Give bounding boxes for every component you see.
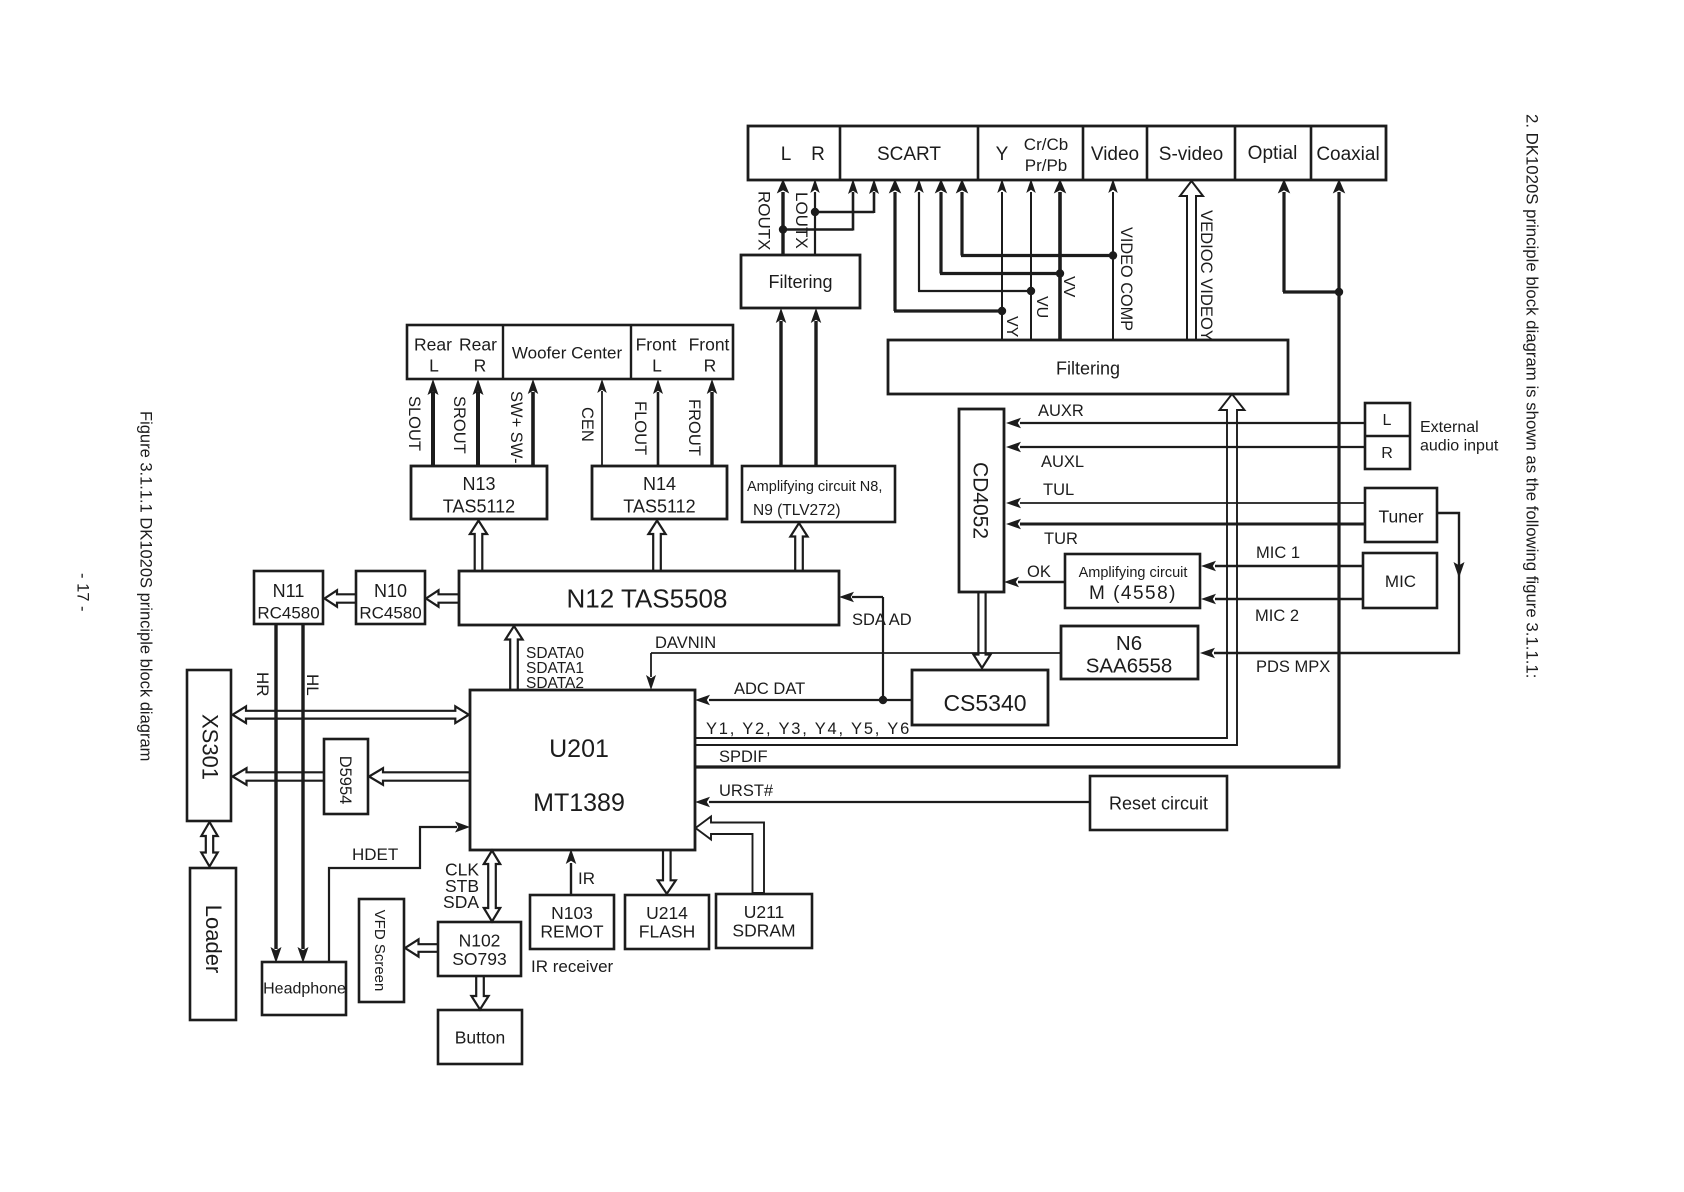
svg-text:CEN: CEN (578, 407, 596, 442)
svg-text:audio input: audio input (1420, 438, 1499, 455)
wire SCART pin 3 video Y (893, 192, 896, 311)
wire HR from N11 to Headphone (274, 624, 277, 949)
svg-text:Y: Y (996, 144, 1009, 165)
svg-text:ROUTX: ROUTX (755, 191, 774, 251)
open arrow U201 to D5954 (369, 768, 469, 785)
svg-text:VY: VY (1003, 316, 1020, 338)
svg-text:XS301: XS301 (198, 714, 223, 780)
op-amp N10 RC4580 (356, 571, 425, 624)
open double arrow XS301 to U201 (233, 706, 469, 723)
svg-text:SW+ SW-: SW+ SW- (507, 391, 525, 464)
svg-text:SDRAM: SDRAM (732, 921, 795, 941)
svg-text:U201: U201 (549, 735, 609, 763)
connector divider Optial/Coaxial (1310, 126, 1313, 180)
connector divider S-video/Optial (1234, 126, 1237, 180)
wire HL from N11 to Headphone (301, 624, 304, 949)
memory U211 SDRAM (716, 894, 812, 948)
decoder U201 MT1389 (470, 690, 695, 850)
Button box (438, 1010, 522, 1064)
svg-text:SROUT: SROUT (450, 396, 468, 454)
node VV junction (1056, 269, 1064, 277)
wire AUXR from external audio to CD4052 (1020, 422, 1365, 424)
open arrow U211 to U201 bent (696, 817, 765, 894)
svg-text:Amplifying circuit N8,: Amplifying circuit N8, (747, 479, 882, 495)
svg-text:TAS5112: TAS5112 (443, 497, 515, 517)
connector XS301 (187, 670, 231, 821)
svg-text:HDET: HDET (352, 845, 398, 864)
svg-text:URST#: URST# (719, 782, 774, 800)
external audio input L R box (1365, 403, 1410, 469)
svg-text:N10: N10 (374, 581, 407, 601)
open double arrow CLK STB SDA between U201 and N102 (484, 851, 500, 922)
svg-text:Figure 3.1.1.1 DK1020S princip: Figure 3.1.1.1 DK1020S principle block d… (137, 411, 155, 761)
svg-text:MT1389: MT1389 (533, 789, 625, 817)
open arrow SDATA0-2 from U201 to N12 (505, 626, 522, 689)
svg-text:N13: N13 (462, 474, 495, 494)
svg-text:Y1, Y2, Y3, Y4, Y5, Y6: Y1, Y2, Y3, Y4, Y5, Y6 (706, 720, 911, 738)
svg-text:AUXL: AUXL (1041, 453, 1084, 471)
svg-text:R: R (1381, 445, 1393, 462)
node SPDIF junction at Coaxial line (1335, 288, 1343, 296)
connector divider Video/S-video (1146, 126, 1149, 180)
wire ADC DAT from CS5340 to U201 (709, 699, 912, 701)
svg-text:VIDEO COMP: VIDEO COMP (1117, 227, 1135, 331)
wire VU from video Filtering to connector Cr/Cb (1030, 192, 1032, 340)
wire SLOUT from N13 to Rear L (431, 392, 435, 466)
wire VY from video Filtering to connector Y (1001, 192, 1003, 340)
svg-text:N14: N14 (643, 474, 676, 494)
amplifier M 4558 (1065, 554, 1200, 608)
wire amplifier N8/N9 output 2 to audio Filtering (814, 321, 817, 466)
svg-text:CS5340: CS5340 (943, 690, 1026, 716)
svg-text:IR: IR (578, 869, 595, 888)
svg-text:VEDIOC VIDEOY: VEDIOC VIDEOY (1197, 210, 1216, 341)
svg-text:U211: U211 (744, 902, 785, 922)
svg-text:FLASH: FLASH (639, 922, 695, 942)
speaker output row outline (407, 325, 733, 379)
svg-text:Pr/Pb: Pr/Pb (1025, 156, 1068, 175)
svg-text:SDA AD: SDA AD (852, 611, 912, 629)
audio switch N6 SAA6558 (1061, 626, 1198, 679)
svg-text:U214: U214 (646, 903, 688, 923)
wire MIC 2 from MIC to amplifier M (1215, 598, 1363, 601)
svg-text:Reset circuit: Reset circuit (1109, 794, 1208, 814)
svg-text:Rear: Rear (459, 335, 497, 355)
amplifier N8 N9 TLV272 (742, 466, 895, 522)
wire FLOUT from N14 to Front L (657, 392, 660, 466)
controller N102 SO793 (438, 922, 521, 976)
node VY junction (998, 307, 1006, 315)
svg-text:RC4580: RC4580 (257, 604, 319, 623)
audio Filtering box (741, 255, 860, 308)
svg-text:VV: VV (1060, 276, 1077, 298)
wire PDS MPX from Tuner to N6 (1214, 513, 1459, 653)
wire ROUTX branch to SCART pin 1 (783, 228, 853, 231)
svg-text:LOUTX: LOUTX (792, 192, 811, 249)
connector divider Y/Video (1082, 126, 1085, 180)
wire SPDIF from U201 (695, 765, 1341, 768)
ADC CS5340 (912, 670, 1048, 725)
Headphone box (262, 962, 346, 1015)
open arrow N102 to VFD Screen (405, 939, 437, 956)
open arrow N12 to N14 (648, 521, 665, 571)
svg-text:SCART: SCART (877, 144, 941, 165)
svg-text:CD4052: CD4052 (969, 462, 992, 539)
amplifier N13 TAS5112 (411, 466, 547, 519)
wire SCART pin 6 composite video (960, 192, 963, 256)
svg-text:TUR: TUR (1044, 530, 1078, 548)
Tuner box (1365, 488, 1437, 542)
svg-text:Headphone: Headphone (263, 981, 346, 998)
wire Optial branch (1282, 192, 1285, 292)
wire IR from N103 to U201 (570, 863, 572, 895)
svg-text:R: R (811, 144, 825, 165)
connector row outline (748, 126, 1386, 180)
remote receiver N103 REMOT (530, 895, 614, 949)
svg-text:MIC: MIC (1385, 572, 1416, 591)
svg-text:L: L (652, 356, 662, 376)
connector divider SCART/Y (977, 126, 980, 180)
svg-text:MIC 1: MIC 1 (1256, 544, 1300, 562)
svg-text:FLOUT: FLOUT (631, 401, 649, 455)
svg-text:DAVNIN: DAVNIN (655, 634, 716, 652)
amplifier N14 TAS5112 (592, 466, 727, 519)
open double arrow XS301 to Loader (201, 822, 217, 867)
svg-text:D5954: D5954 (336, 756, 354, 805)
svg-text:Woofer Center: Woofer Center (512, 344, 623, 363)
wire AUXL from external audio to CD4052 (1020, 446, 1365, 448)
svg-text:IR receiver: IR receiver (531, 957, 614, 976)
arrowhead direction marker on PDS MPX drop (1454, 562, 1465, 578)
wire FROUT from N14 to Front R (710, 392, 713, 466)
MIC box (1363, 553, 1437, 608)
wire DAVNIN from N6 to U201 (651, 652, 1061, 654)
wire SDA AD to N12 (882, 597, 884, 700)
wire VIDEO COMP from video Filtering to connector Video (1112, 192, 1114, 340)
svg-text:Coaxial: Coaxial (1316, 144, 1379, 165)
wire ROUTX from audio Filtering to connector L (781, 192, 784, 255)
svg-text:Front: Front (689, 335, 730, 355)
multiplexer CD4052 (959, 409, 1004, 592)
node ROUTX branch junction (779, 225, 787, 233)
svg-text:2. DK1020S principle block dia: 2. DK1020S principle block diagram is sh… (1523, 114, 1542, 678)
speaker divider Rear/Woofer (502, 325, 504, 379)
wire MIC 1 from MIC to amplifier M (1215, 565, 1363, 568)
svg-text:SO793: SO793 (452, 949, 506, 969)
svg-text:VFD Screen: VFD Screen (371, 910, 388, 992)
wire SCART pin 4 video U (918, 192, 920, 291)
open arrow N12 to N8/N9 (790, 523, 807, 570)
svg-text:- 17 -: - 17 - (74, 573, 92, 612)
svg-text:Filtering: Filtering (1056, 359, 1120, 379)
svg-text:Front: Front (636, 335, 677, 355)
svg-text:M (4558): M (4558) (1089, 583, 1177, 604)
svg-text:SPDIF: SPDIF (719, 748, 768, 766)
VFD Screen box (359, 899, 404, 1002)
svg-text:Amplifying circuit: Amplifying circuit (1079, 565, 1188, 581)
video Filtering box (888, 340, 1288, 394)
node VU junction (1027, 287, 1035, 295)
svg-text:External: External (1420, 419, 1479, 436)
svg-text:Button: Button (455, 1028, 506, 1048)
svg-text:R: R (704, 356, 717, 376)
svg-text:N102: N102 (459, 931, 501, 951)
wire URST# from Reset circuit to U201 (709, 801, 1090, 803)
svg-text:L: L (429, 356, 439, 376)
wire SROUT from N13 to Rear R (476, 392, 480, 466)
svg-text:OK: OK (1027, 563, 1051, 581)
svg-text:Loader: Loader (201, 905, 226, 974)
svg-text:R: R (474, 356, 487, 376)
svg-text:FROUT: FROUT (685, 399, 703, 456)
open arrow N102 to Button (471, 977, 488, 1010)
memory U214 FLASH (625, 895, 709, 949)
driver D5954 (324, 739, 368, 814)
wire SW+ SW- from N13 to Woofer (531, 392, 535, 466)
svg-text:Filtering: Filtering (768, 272, 832, 292)
svg-text:N6: N6 (1116, 632, 1142, 655)
speaker divider Center/Front (630, 325, 632, 379)
wire Y1-Y6 bent open arrow from U201 to video Filtering (695, 394, 1245, 745)
wire HDET from Headphone to U201 (329, 827, 457, 962)
open arrow D5954 to XS301 (233, 768, 324, 785)
svg-text:SDA: SDA (443, 892, 479, 912)
svg-text:Video: Video (1091, 144, 1139, 165)
node VIDEO COMP junction (1109, 251, 1117, 259)
svg-text:N9 (TLV272): N9 (TLV272) (753, 502, 841, 519)
svg-text:HL: HL (303, 674, 322, 696)
wire VEDIOC VIDEOY open arrow from video Filtering to S-video (1180, 181, 1203, 340)
svg-text:SAA6558: SAA6558 (1086, 655, 1173, 678)
wire SCART pin 5 video V (939, 192, 942, 274)
svg-text:VU: VU (1033, 296, 1050, 318)
open arrow N12 to N10 (426, 590, 460, 606)
svg-text:Tuner: Tuner (1378, 507, 1423, 527)
open arrow N10 to N11 (325, 590, 358, 606)
Loader box (190, 868, 236, 1020)
svg-text:ADC DAT: ADC DAT (734, 680, 805, 698)
svg-text:PDS MPX: PDS MPX (1256, 658, 1330, 676)
open arrow CD4052 to CS5340 (973, 592, 990, 668)
op-amp N11 RC4580 (254, 571, 323, 624)
svg-text:HR: HR (253, 672, 272, 697)
svg-text:L: L (1383, 412, 1392, 429)
wire OK from amplifier M to CD4052 (1018, 581, 1065, 584)
svg-text:N103: N103 (551, 903, 593, 923)
svg-text:SLOUT: SLOUT (405, 396, 423, 451)
svg-text:Cr/Cb: Cr/Cb (1024, 135, 1068, 154)
wire LOUTX branch to SCART pin 2 (815, 211, 874, 214)
wire LOUTX from audio Filtering to connector R (814, 192, 816, 255)
open arrow N12 to N13 (470, 521, 487, 571)
wire Coaxial / SPDIF vertical (1337, 192, 1340, 767)
svg-text:MIC 2: MIC 2 (1255, 607, 1299, 625)
node LOUTX branch junction (811, 208, 819, 216)
svg-text:L: L (781, 144, 792, 165)
wire TUL from Tuner to CD4052 (1020, 502, 1365, 504)
svg-text:AUXR: AUXR (1038, 402, 1084, 420)
svg-text:N12 TAS5508: N12 TAS5508 (567, 584, 728, 614)
wire amplifier N8/N9 output 1 to audio Filtering (779, 321, 782, 466)
svg-text:REMOT: REMOT (540, 922, 604, 942)
svg-text:TUL: TUL (1043, 481, 1074, 499)
svg-text:S-video: S-video (1159, 144, 1223, 165)
svg-text:Optial: Optial (1248, 143, 1298, 164)
wire TUR from Tuner to CD4052 (1020, 523, 1365, 526)
node SDA AD junction (879, 696, 887, 704)
open arrow U201 to U214 (658, 851, 676, 894)
Reset circuit box (1090, 776, 1227, 830)
wire VV from video Filtering to connector Pr/Pb (1058, 192, 1062, 340)
svg-text:Rear: Rear (414, 335, 452, 355)
svg-text:RC4580: RC4580 (359, 604, 421, 623)
svg-text:N11: N11 (273, 581, 305, 601)
wire CEN from N14 to Center (601, 391, 603, 466)
svg-text:SDATA2: SDATA2 (526, 675, 584, 692)
audio DAC N12 TAS5508 (459, 571, 839, 625)
connector divider L-R/SCART (839, 126, 842, 180)
svg-text:TAS5112: TAS5112 (623, 497, 695, 517)
